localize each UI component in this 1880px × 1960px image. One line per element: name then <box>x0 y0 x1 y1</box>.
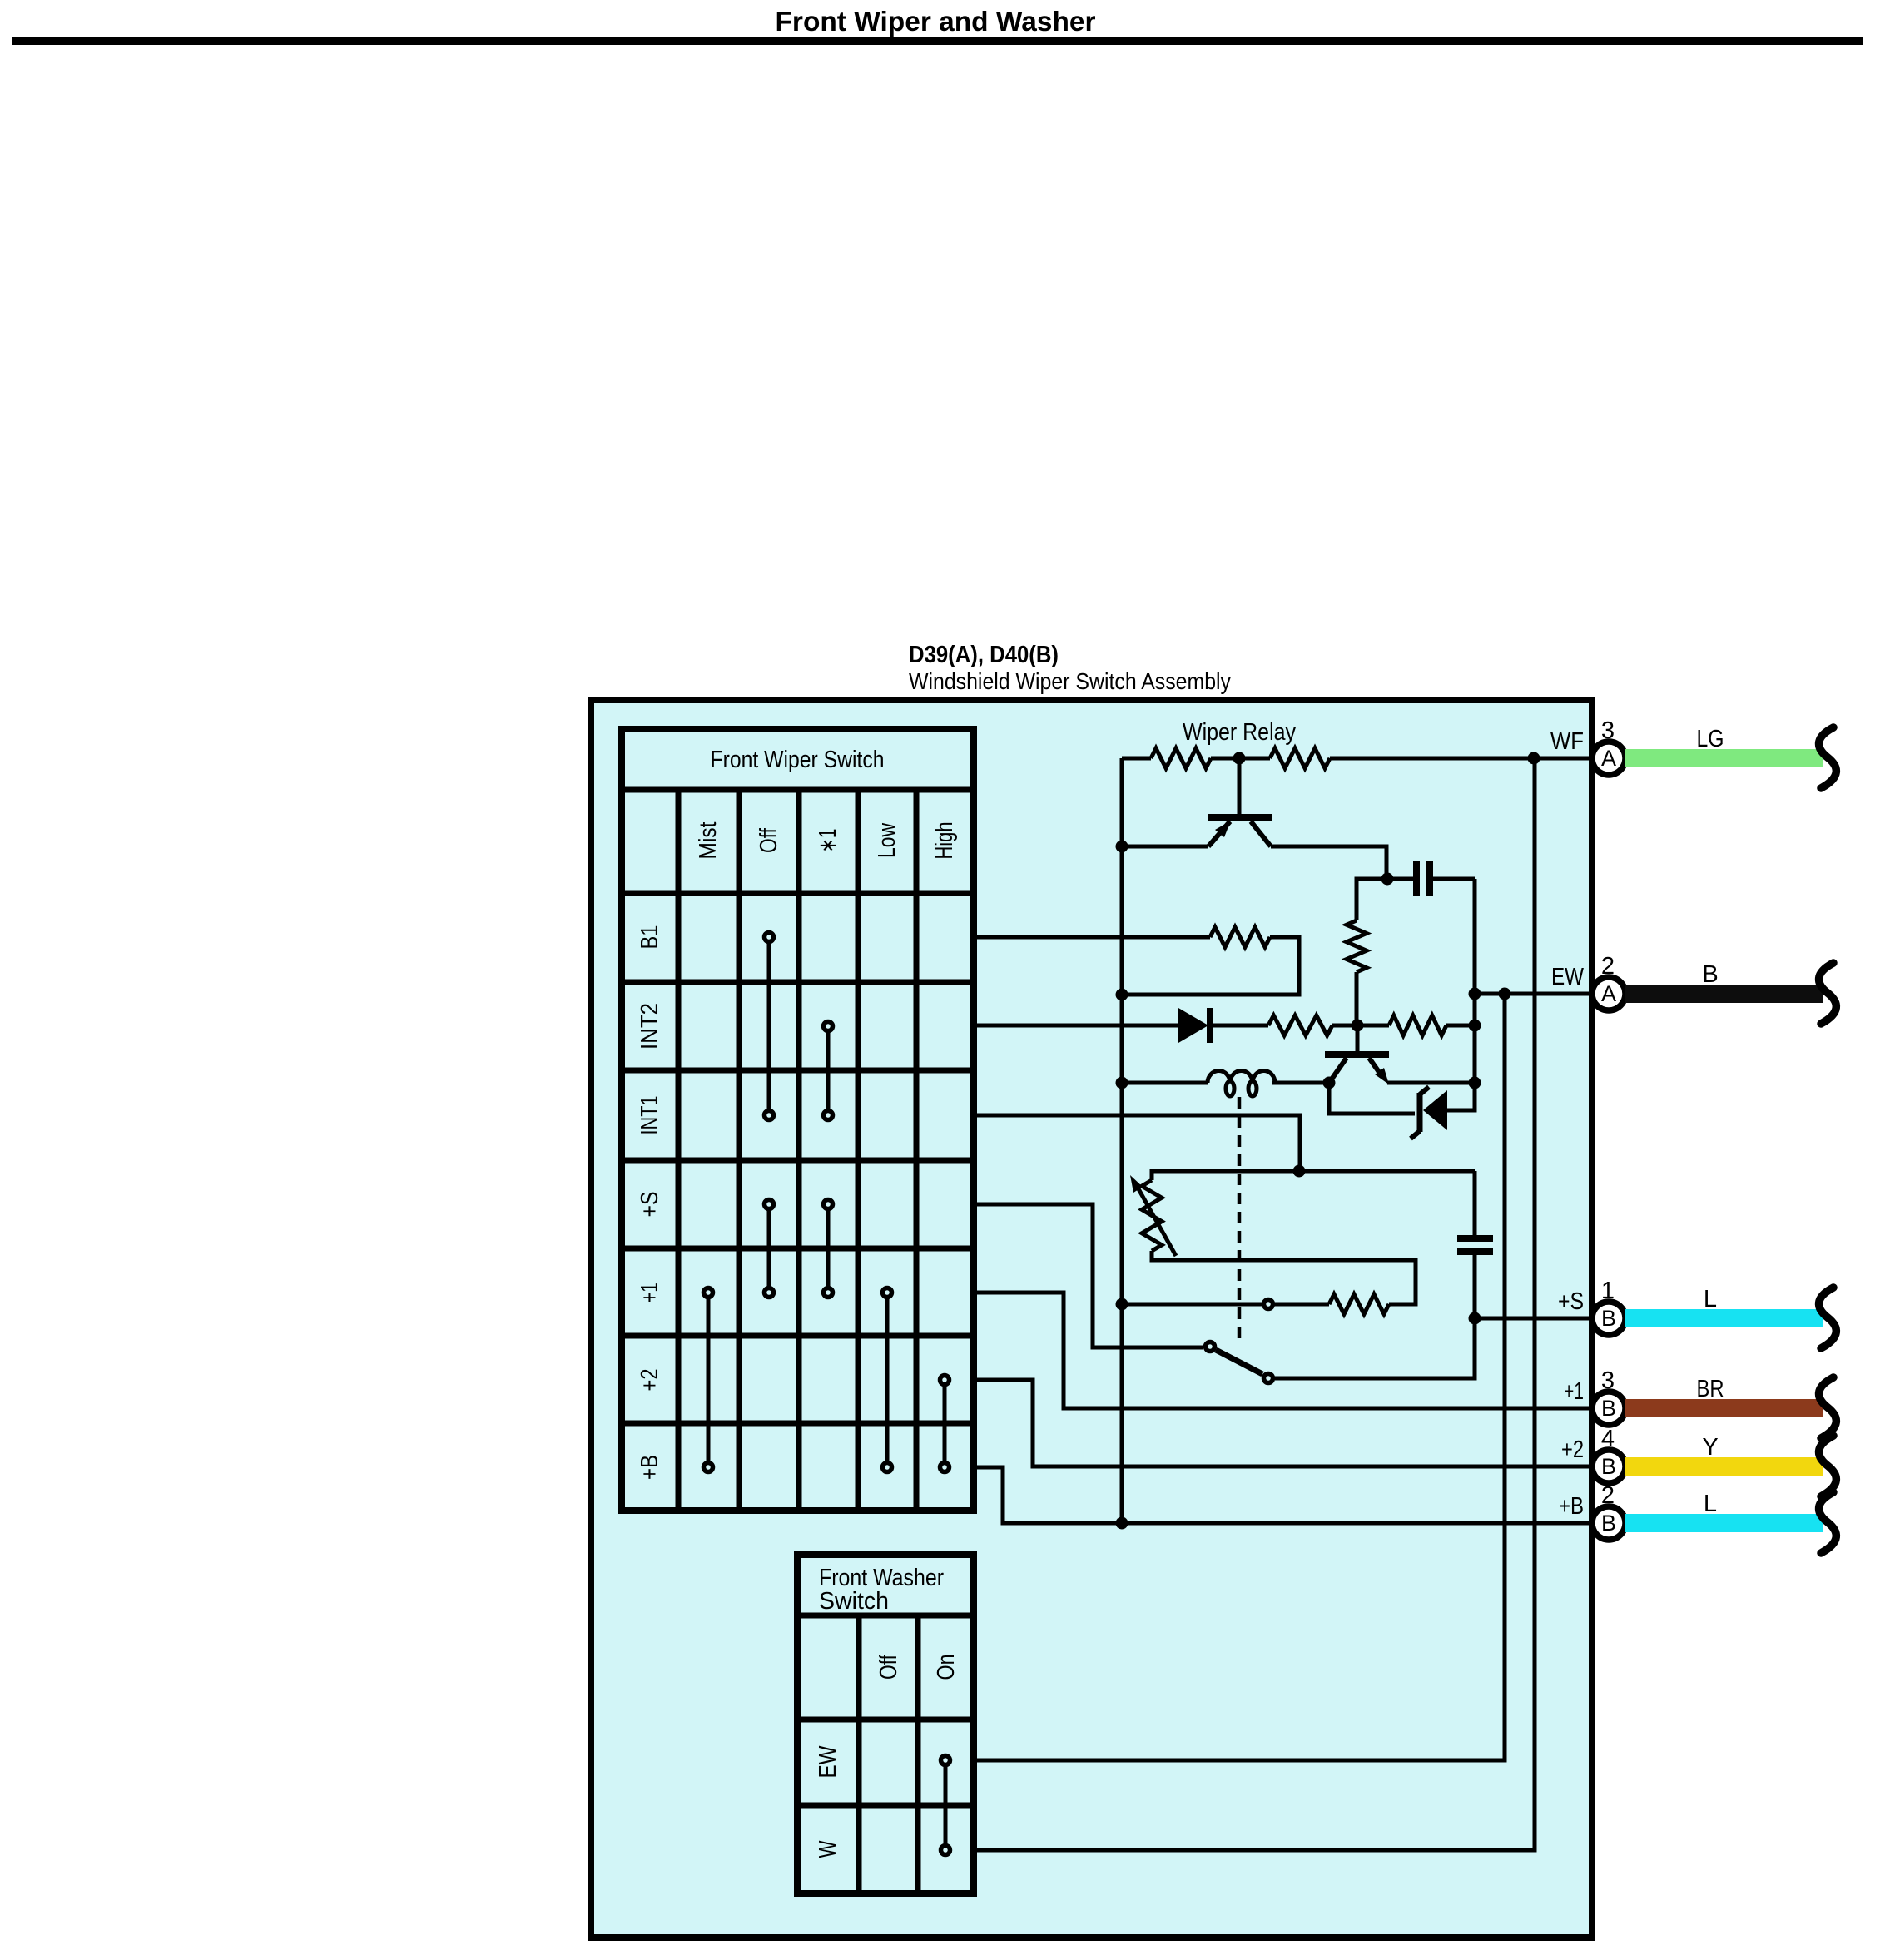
contact Mist +1-+B <box>707 1293 711 1467</box>
junction WF drop <box>1528 752 1540 765</box>
svg-text:+S: +S <box>1558 1288 1584 1315</box>
junction emitter/right rail <box>1469 1077 1481 1089</box>
svg-text:EW: EW <box>1551 964 1585 990</box>
svg-text:+1: +1 <box>637 1283 663 1303</box>
wire L <box>1625 1309 1823 1327</box>
svg-text:Off: Off <box>756 827 782 853</box>
svg-text:+2: +2 <box>637 1369 663 1392</box>
wire +1 row to pin <box>974 1293 1594 1408</box>
svg-text:3: 3 <box>1601 1367 1615 1394</box>
wire relay left rail <box>1120 758 1124 1523</box>
svg-text:LG: LG <box>1697 726 1724 752</box>
front washer switch table frame <box>797 1555 974 1893</box>
svg-text:Mist: Mist <box>695 822 722 860</box>
relay contact pivot <box>1206 1342 1215 1352</box>
contact Off B1-INT1 <box>767 937 771 1115</box>
svg-text:On: On <box>933 1655 960 1680</box>
wire WF drop to washer switch <box>974 758 1535 1850</box>
connector pin +S <box>1592 1302 1625 1335</box>
svg-text:+1: +1 <box>1564 1378 1584 1405</box>
junction R6/R7/Q2 base <box>1352 1020 1364 1032</box>
svg-text:INT2: INT2 <box>637 1003 663 1049</box>
contact Off +S-+1 <box>767 1204 771 1293</box>
svg-text:B: B <box>1601 1454 1616 1479</box>
junction EW/right rail <box>1469 988 1481 1000</box>
junction R7/right rail <box>1469 1020 1481 1032</box>
junction rail/+S contact <box>1116 1298 1128 1311</box>
connector pin +1 <box>1592 1392 1625 1425</box>
front wiper switch table grid <box>622 790 974 1511</box>
svg-text:+B: +B <box>637 1455 663 1480</box>
variable resistor R9 <box>1142 1180 1162 1251</box>
wire WF top rail <box>1122 757 1594 761</box>
junction WF/Q1 base <box>1233 752 1246 765</box>
wire +S row to pivot <box>974 1204 1203 1347</box>
resistor R7 <box>1389 1015 1446 1035</box>
junction C2/+S/contact arm <box>1469 1312 1481 1325</box>
svg-text:Windshield Wiper Switch Assemb: Windshield Wiper Switch Assembly <box>909 668 1231 694</box>
inductor relay coil <box>1122 1081 1329 1085</box>
contact *1 +S-+1 <box>826 1204 831 1293</box>
wire Q1 emitter to rail <box>1122 845 1208 849</box>
svg-text:4: 4 <box>1601 1426 1615 1452</box>
resistor R6 <box>1268 1015 1332 1035</box>
zener diode Z1 <box>1329 1083 1415 1114</box>
contact High +2-+B <box>943 1380 947 1467</box>
wire right mid rail <box>1473 879 1477 1110</box>
svg-text:B: B <box>1601 1511 1616 1536</box>
svg-text:Low: Low <box>874 822 900 858</box>
svg-text:WF: WF <box>1550 728 1584 755</box>
wire B <box>1625 985 1823 1003</box>
svg-text:∗1: ∗1 <box>815 829 841 853</box>
junction rail/B1 return <box>1116 989 1128 1001</box>
diode D1 <box>1178 1008 1208 1043</box>
svg-text:Y: Y <box>1702 1434 1718 1461</box>
svg-text:3: 3 <box>1601 717 1615 744</box>
svg-text:BR: BR <box>1697 1376 1724 1402</box>
junction C1 node <box>1381 873 1394 886</box>
junction timing node <box>1293 1165 1306 1178</box>
svg-text:B: B <box>1601 1396 1616 1421</box>
svg-text:Off: Off <box>876 1654 902 1680</box>
wire LG <box>1625 749 1823 767</box>
transistor Q1 (PNP) <box>1238 758 1242 815</box>
svg-text:A: A <box>1601 746 1616 771</box>
wire R4 return to rail <box>1122 937 1299 995</box>
svg-text:+S: +S <box>637 1192 663 1218</box>
wire +B row to pin <box>974 1467 1594 1523</box>
fixed contact (normally open) <box>1264 1300 1273 1309</box>
svg-text:Switch: Switch <box>819 1588 889 1615</box>
wire L <box>1625 1514 1823 1532</box>
resistor R2 <box>1270 748 1330 768</box>
junction EW drop <box>1499 988 1511 1000</box>
windshield wiper switch assembly box <box>591 700 1592 1938</box>
washer contact On EW-W <box>944 1760 948 1850</box>
junction rail/+B <box>1116 1517 1128 1530</box>
junction coil/Q2 collector <box>1323 1077 1336 1089</box>
connector pin EW <box>1592 977 1625 1010</box>
title rule <box>12 37 1863 45</box>
wire EW line <box>1475 992 1594 996</box>
wire B1 row to R4 <box>974 935 1210 940</box>
wire C1 node to R5 <box>1357 879 1387 920</box>
svg-text:Wiper Relay: Wiper Relay <box>1183 719 1296 746</box>
svg-text:W: W <box>815 1840 841 1858</box>
svg-text:B1: B1 <box>637 925 663 950</box>
svg-text:2: 2 <box>1601 953 1615 980</box>
wire EW drop to washer switch <box>974 994 1505 1760</box>
junction rail/coil <box>1116 1077 1128 1089</box>
resistor R5 (vertical) <box>1347 920 1367 972</box>
svg-text:INT1: INT1 <box>637 1096 663 1135</box>
armature dashed link <box>1238 1097 1242 1342</box>
front washer switch grid <box>797 1615 974 1893</box>
relay contact arm <box>1216 1350 1262 1374</box>
svg-text:A: A <box>1601 981 1616 1006</box>
svg-text:D39(A), D40(B): D39(A), D40(B) <box>909 642 1059 668</box>
connector pin +B <box>1592 1506 1625 1540</box>
relay contact arm end <box>1264 1374 1273 1383</box>
svg-text:Front Wiper and Washer: Front Wiper and Washer <box>776 6 1096 37</box>
capacitor C2 <box>1473 1171 1477 1238</box>
wire fixed contact to rail <box>1122 1303 1262 1307</box>
capacitor C1 <box>1387 877 1415 881</box>
resistor R8 <box>1329 1294 1389 1314</box>
contact Low +1-+B <box>885 1293 890 1467</box>
connector pin +2 <box>1592 1450 1625 1483</box>
wire contact arm return <box>1275 1318 1475 1378</box>
svg-text:L: L <box>1704 1286 1717 1312</box>
svg-text:+2: +2 <box>1561 1437 1584 1463</box>
contact *1 INT2-INT1 <box>826 1026 831 1115</box>
svg-text:Front Wiper Switch: Front Wiper Switch <box>711 747 885 773</box>
wire INT2 row to diode D1 <box>974 1024 1178 1028</box>
wire +2 row to pin <box>974 1380 1594 1466</box>
wire R9 bottom to R8 <box>1152 1251 1416 1304</box>
wire INT1 row to timing node <box>974 1115 1300 1171</box>
svg-text:L: L <box>1704 1491 1717 1517</box>
svg-text:High: High <box>931 822 958 860</box>
svg-text:B: B <box>1601 1306 1616 1331</box>
wire BR <box>1625 1399 1823 1417</box>
svg-text:B: B <box>1702 961 1718 988</box>
front wiper switch table frame <box>622 729 974 1511</box>
svg-text:+B: +B <box>1559 1493 1584 1520</box>
wire Q2 emitter to right rail <box>1387 1081 1475 1085</box>
wire timing top line <box>1152 1171 1475 1180</box>
wire Q1 collector to C1 node <box>1271 846 1386 879</box>
svg-text:2: 2 <box>1601 1482 1615 1509</box>
svg-text:1: 1 <box>1601 1278 1615 1304</box>
resistor R4 <box>1210 927 1270 947</box>
transistor Q2 (NPN) <box>1356 1025 1360 1052</box>
wire Y <box>1625 1457 1823 1476</box>
connector pin WF <box>1592 742 1625 775</box>
resistor R1 <box>1151 748 1211 768</box>
svg-text:EW: EW <box>815 1745 841 1779</box>
wire +S output line <box>1475 1317 1594 1321</box>
